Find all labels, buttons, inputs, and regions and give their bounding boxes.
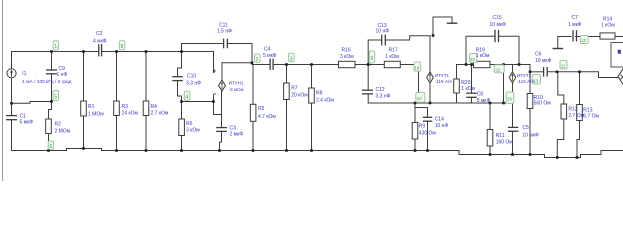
- wire I1 to C9 node: [12, 102, 52, 104]
- resistor R13: [577, 105, 583, 121]
- svg-text:20 кОм: 20 кОм: [291, 93, 308, 99]
- junction R7 / ground bus: [285, 149, 288, 152]
- svg-text:12: 12: [581, 38, 586, 43]
- svg-text:R5: R5: [258, 106, 265, 112]
- node 16: [506, 92, 514, 103]
- junction R9 / ground bus: [414, 149, 417, 152]
- resistor R4: [143, 101, 149, 116]
- svg-text:R6: R6: [186, 121, 193, 127]
- svg-text:C7: C7: [572, 15, 579, 21]
- junction top bus / R1: [82, 50, 85, 53]
- svg-text:C3: C3: [230, 125, 237, 131]
- svg-text:R1: R1: [88, 104, 95, 110]
- junction R11 / ground bus: [489, 153, 492, 156]
- node 10: [416, 93, 425, 103]
- resistor R3: [114, 101, 120, 116]
- svg-text:-115 А/А: -115 А/А: [517, 79, 535, 84]
- junction top bus / R3: [115, 50, 118, 53]
- node boxes: [48, 36, 588, 151]
- svg-text:C1: C1: [20, 113, 27, 119]
- svg-text:C14: C14: [435, 116, 444, 122]
- svg-text:1 нФ: 1 нФ: [57, 72, 68, 78]
- resistor R6: [179, 119, 185, 136]
- svg-text:R4: R4: [151, 104, 158, 110]
- node 4: [184, 91, 190, 101]
- wire VCCS1 output bottom through C3: [221, 91, 223, 127]
- node 5: [53, 91, 59, 101]
- svg-text:6: 6: [49, 144, 52, 150]
- node 13: [532, 75, 540, 85]
- wire R5 branch: [252, 65, 254, 105]
- svg-text:1 кОм: 1 кОм: [385, 54, 399, 60]
- svg-text:19: 19: [414, 66, 419, 71]
- junction ITUN1 minus node: [212, 100, 215, 103]
- capacitor C13: [382, 35, 386, 46]
- junction R3 / ground bus: [115, 149, 118, 152]
- resistor R7: [284, 83, 290, 100]
- capacitor C15: [495, 30, 499, 42]
- svg-text:10 нФ: 10 нФ: [435, 123, 449, 129]
- svg-text:4.7 кОм: 4.7 кОм: [258, 114, 276, 120]
- junction R10 / ground bus: [529, 153, 532, 156]
- capacitor C4: [270, 59, 273, 70]
- svg-text:3 кОм: 3 кОм: [340, 54, 354, 60]
- wire output rail y72: [530, 71, 543, 73]
- junction R12 / ground bus: [556, 156, 559, 159]
- resistor R11: [487, 130, 493, 147]
- svg-text:ИТУТ2: ИТУТ2: [517, 73, 532, 78]
- svg-text:1 кОм: 1 кОм: [601, 22, 615, 28]
- svg-text:ИТУТ1: ИТУТ1: [435, 73, 450, 78]
- junction C5 / ground bus: [511, 153, 514, 156]
- svg-text:1 МОм: 1 МОм: [88, 111, 104, 117]
- svg-text:20: 20: [470, 57, 475, 62]
- wire VCCS1 plus control from bus: [213, 52, 215, 73]
- window border left: [2, 0, 4, 181]
- junction R13 / ground bus: [576, 156, 579, 159]
- junction C15 right / input rail: [518, 63, 521, 66]
- svg-text:3 кОм: 3 кОм: [186, 128, 200, 134]
- svg-text:3.3 нФ: 3.3 нФ: [376, 93, 391, 99]
- wire C11 bypass: [182, 44, 224, 52]
- junction top bus / C9 branch: [50, 50, 53, 53]
- wire node21 vertical: [503, 65, 505, 104]
- wire C13 bypass: [368, 40, 381, 65]
- capacitor C14: [423, 117, 433, 121]
- resistor R16: [339, 61, 356, 67]
- svg-text:10 мкФ: 10 мкФ: [535, 58, 552, 64]
- wire CCCS1 top lead: [429, 36, 431, 72]
- junction C3 / ground bus: [218, 149, 221, 152]
- svg-text:16: 16: [507, 97, 513, 102]
- junction C12-R9 node: [414, 102, 417, 105]
- wire node4 to VCCS minus: [182, 101, 214, 103]
- junction ITUT1 top / C13 / stub: [432, 34, 435, 37]
- wire R20 branch: [456, 65, 458, 80]
- svg-text:R11: R11: [496, 133, 505, 139]
- wire minus node to C3 top: [214, 102, 222, 115]
- svg-text:-3 мСм: -3 мСм: [229, 87, 244, 92]
- resistor R2: [46, 119, 52, 134]
- svg-text:5 мкФ: 5 мкФ: [263, 53, 277, 59]
- svg-text:2: 2: [256, 57, 259, 63]
- wire stage1 output rail: [222, 63, 270, 65]
- svg-text:R8: R8: [316, 90, 323, 96]
- capacitor C1: [6, 116, 17, 120]
- wire CCCS1 output bottom: [429, 83, 431, 103]
- svg-text:2 МОм: 2 МОм: [55, 129, 71, 135]
- svg-text:1: 1: [54, 44, 57, 50]
- CCCS ITUT2: [509, 72, 516, 83]
- node 2: [289, 53, 295, 62]
- junction node22 / input rail: [502, 63, 505, 66]
- svg-text:C12: C12: [376, 87, 385, 93]
- wire R3 branch: [116, 52, 118, 102]
- ground bar 2: [553, 48, 562, 50]
- svg-text:1 кОм: 1 кОм: [476, 53, 490, 59]
- svg-text:3: 3: [290, 56, 293, 62]
- svg-text:1 мкФ: 1 мкФ: [568, 22, 582, 28]
- svg-text:3.3 нФ: 3.3 нФ: [186, 80, 201, 86]
- svg-text:5 мкФ: 5 мкФ: [20, 120, 34, 126]
- wire R9 branch: [414, 103, 416, 123]
- wire CCCS2 bottom through C5: [512, 83, 514, 127]
- wire VCCS1 output top: [221, 63, 223, 80]
- junction I1 branch / node wire: [10, 102, 13, 105]
- wire C9 branch: [51, 52, 53, 70]
- wire R7 branch: [286, 65, 288, 84]
- wire bottom ground bus: [12, 149, 623, 158]
- capacitor C3: [216, 128, 227, 132]
- svg-text:C4: C4: [264, 46, 271, 52]
- node 12: [580, 36, 588, 44]
- wire R11 branch: [489, 103, 491, 130]
- junction R1 / ground bus: [82, 147, 85, 150]
- junction R8 / ground bus: [310, 149, 313, 152]
- junction top bus / R4: [145, 50, 148, 53]
- svg-text:R12: R12: [568, 107, 577, 113]
- svg-text:C11: C11: [219, 23, 228, 29]
- capacitor C12: [362, 90, 373, 94]
- svg-text:10: 10: [417, 96, 423, 101]
- capacitor C2: [99, 44, 102, 56]
- junction R7 / output rail: [285, 63, 288, 66]
- svg-text:1.5 нФ: 1.5 нФ: [217, 29, 232, 35]
- svg-text:24 кОм: 24 кОм: [122, 111, 139, 117]
- capacitor C6: [544, 67, 548, 77]
- wire R2 branch: [49, 102, 52, 120]
- junction C9-R2 node: [50, 100, 53, 103]
- svg-text:ИТУН1: ИТУН1: [229, 80, 244, 85]
- junction ITUT2 control / output rail: [529, 71, 532, 74]
- wire feedback node horizontal: [415, 102, 513, 104]
- wire CCCS2 top lead: [512, 65, 514, 72]
- node 8: [119, 41, 125, 50]
- svg-text:C10: C10: [187, 74, 196, 80]
- resistor R9: [412, 123, 418, 140]
- junction R2 / ground bus: [47, 149, 50, 152]
- node 20: [470, 54, 477, 63]
- junction top bus / C10-C11: [180, 50, 183, 53]
- junction ITUT1 out / R20 wire: [429, 102, 432, 105]
- svg-text:C6: C6: [535, 52, 542, 58]
- svg-text:2.7 кОм: 2.7 кОм: [151, 111, 169, 117]
- svg-text:-115 А/А: -115 А/А: [435, 79, 453, 84]
- svg-text:R7: R7: [291, 85, 298, 91]
- resistor R19: [474, 61, 491, 67]
- junction C8 / input rail: [470, 63, 473, 66]
- ITUN1 plus mark: [213, 69, 216, 72]
- wire stage2 input rail: [457, 64, 474, 66]
- wire left branch I1/C1: [11, 52, 13, 69]
- svg-text:6.7 Ом: 6.7 Ом: [583, 114, 599, 120]
- junction R12 / output rail: [556, 71, 559, 74]
- capacitor C9: [46, 70, 57, 74]
- svg-text:11: 11: [561, 64, 566, 69]
- junction C14 / ground bus: [426, 149, 429, 152]
- node 11: [560, 61, 567, 70]
- resistor R10: [527, 94, 533, 109]
- svg-text:8: 8: [121, 44, 124, 50]
- svg-text:9: 9: [371, 56, 374, 62]
- svg-text:R9: R9: [419, 123, 426, 129]
- resistor R14: [600, 33, 615, 39]
- node 6: [48, 141, 53, 150]
- wire R16 R17 rail: [355, 64, 384, 66]
- svg-text:R3: R3: [122, 104, 129, 110]
- capacitor C11: [224, 39, 228, 49]
- svg-text:R2: R2: [55, 122, 62, 128]
- resistor R1: [81, 101, 87, 116]
- svg-text:1 мА / 100 кГц / 0 град: 1 мА / 100 кГц / 0 град: [22, 79, 71, 85]
- resistor R12: [561, 104, 567, 119]
- node 1: [53, 41, 58, 50]
- wire C10 branch: [178, 52, 182, 77]
- junction R11 / feedback wire: [489, 102, 492, 105]
- svg-text:1 кОм: 1 кОм: [461, 86, 475, 92]
- svg-text:R16: R16: [342, 48, 351, 54]
- junction R4 / ground bus: [145, 149, 148, 152]
- wire R4 branch: [145, 52, 147, 102]
- svg-text:22: 22: [495, 68, 500, 73]
- current source I1: [7, 69, 16, 78]
- wire R1 branch: [83, 52, 85, 102]
- svg-text:C9: C9: [59, 66, 66, 72]
- wire C12 branch: [367, 65, 369, 90]
- wire CCCS1 control vertical: [418, 65, 420, 103]
- svg-text:C15: C15: [493, 15, 502, 21]
- resistor R8: [309, 88, 315, 103]
- VCCS ITUN1: [219, 80, 226, 91]
- svg-text:2.7 Ом: 2.7 Ом: [568, 113, 584, 119]
- junction R6 / ground bus: [180, 149, 183, 152]
- ITUN1 minus mark: [213, 93, 216, 95]
- capacitor C8: [466, 93, 477, 97]
- svg-text:560 Ом: 560 Ом: [534, 100, 552, 106]
- wire R8 branch: [311, 65, 313, 89]
- svg-text:10 мкФ: 10 мкФ: [522, 132, 539, 138]
- wire C14 branch: [415, 103, 428, 117]
- wire C8 branch: [471, 65, 473, 94]
- resistor R17: [384, 61, 400, 67]
- svg-text:2 мкФ: 2 мкФ: [230, 132, 244, 138]
- wire ground stub 1: [433, 17, 452, 36]
- junction node22 vertical / feedback wire: [502, 102, 505, 105]
- node 19: [414, 62, 421, 71]
- wire VCCS1 minus control down: [213, 96, 215, 102]
- ground bar 1: [448, 22, 457, 24]
- junction C15 left / input rail: [465, 63, 468, 66]
- wire CCCS2 control vertical: [529, 65, 531, 94]
- svg-text:5: 5: [54, 95, 57, 101]
- wire ground stub 2: [558, 37, 571, 49]
- CCCS ITUT1: [427, 72, 434, 84]
- resistor R20: [454, 79, 460, 93]
- node 7: [254, 54, 260, 63]
- svg-text:2.4 кОм: 2.4 кОм: [316, 97, 334, 103]
- wire C15 bypass: [466, 36, 494, 64]
- svg-text:10 нФ: 10 нФ: [376, 29, 390, 35]
- svg-text:C2: C2: [96, 31, 103, 37]
- junction C11 / output rail: [251, 62, 254, 65]
- svg-text:430 Ом: 430 Ом: [419, 130, 437, 136]
- svg-text:4 мкФ: 4 мкФ: [93, 39, 107, 45]
- svg-text:4: 4: [185, 95, 188, 101]
- wire R12 branch: [558, 72, 564, 104]
- svg-text:5 мкФ: 5 мкФ: [477, 98, 491, 104]
- node 9: [369, 51, 374, 63]
- capacitor C10: [172, 77, 182, 81]
- resistor R5: [250, 104, 256, 121]
- wire top bus: [12, 51, 99, 53]
- junction R16-R17 / C12-C13: [367, 63, 370, 66]
- svg-text:10 мкФ: 10 мкФ: [490, 22, 507, 28]
- output meter box: [611, 43, 623, 68]
- svg-text:I1: I1: [22, 71, 26, 77]
- svg-text:C8: C8: [477, 91, 484, 97]
- svg-text:160 Ом: 160 Ом: [496, 139, 514, 145]
- capacitor C7: [573, 30, 577, 41]
- node 21: [494, 65, 504, 73]
- output source diamond cut at edge: [618, 67, 623, 87]
- svg-text:R17: R17: [389, 48, 398, 54]
- junction R13 / output rail: [578, 71, 581, 74]
- svg-text:C5: C5: [522, 125, 529, 131]
- junction node4 wire / R6: [180, 100, 183, 103]
- wire R6 branch: [181, 136, 183, 151]
- wire R13 branch: [579, 72, 581, 105]
- capacitor C5: [508, 127, 518, 131]
- wire C7 to R14: [576, 36, 601, 38]
- junction R8 / output rail: [310, 63, 313, 66]
- junction R5 / ground bus: [252, 149, 255, 152]
